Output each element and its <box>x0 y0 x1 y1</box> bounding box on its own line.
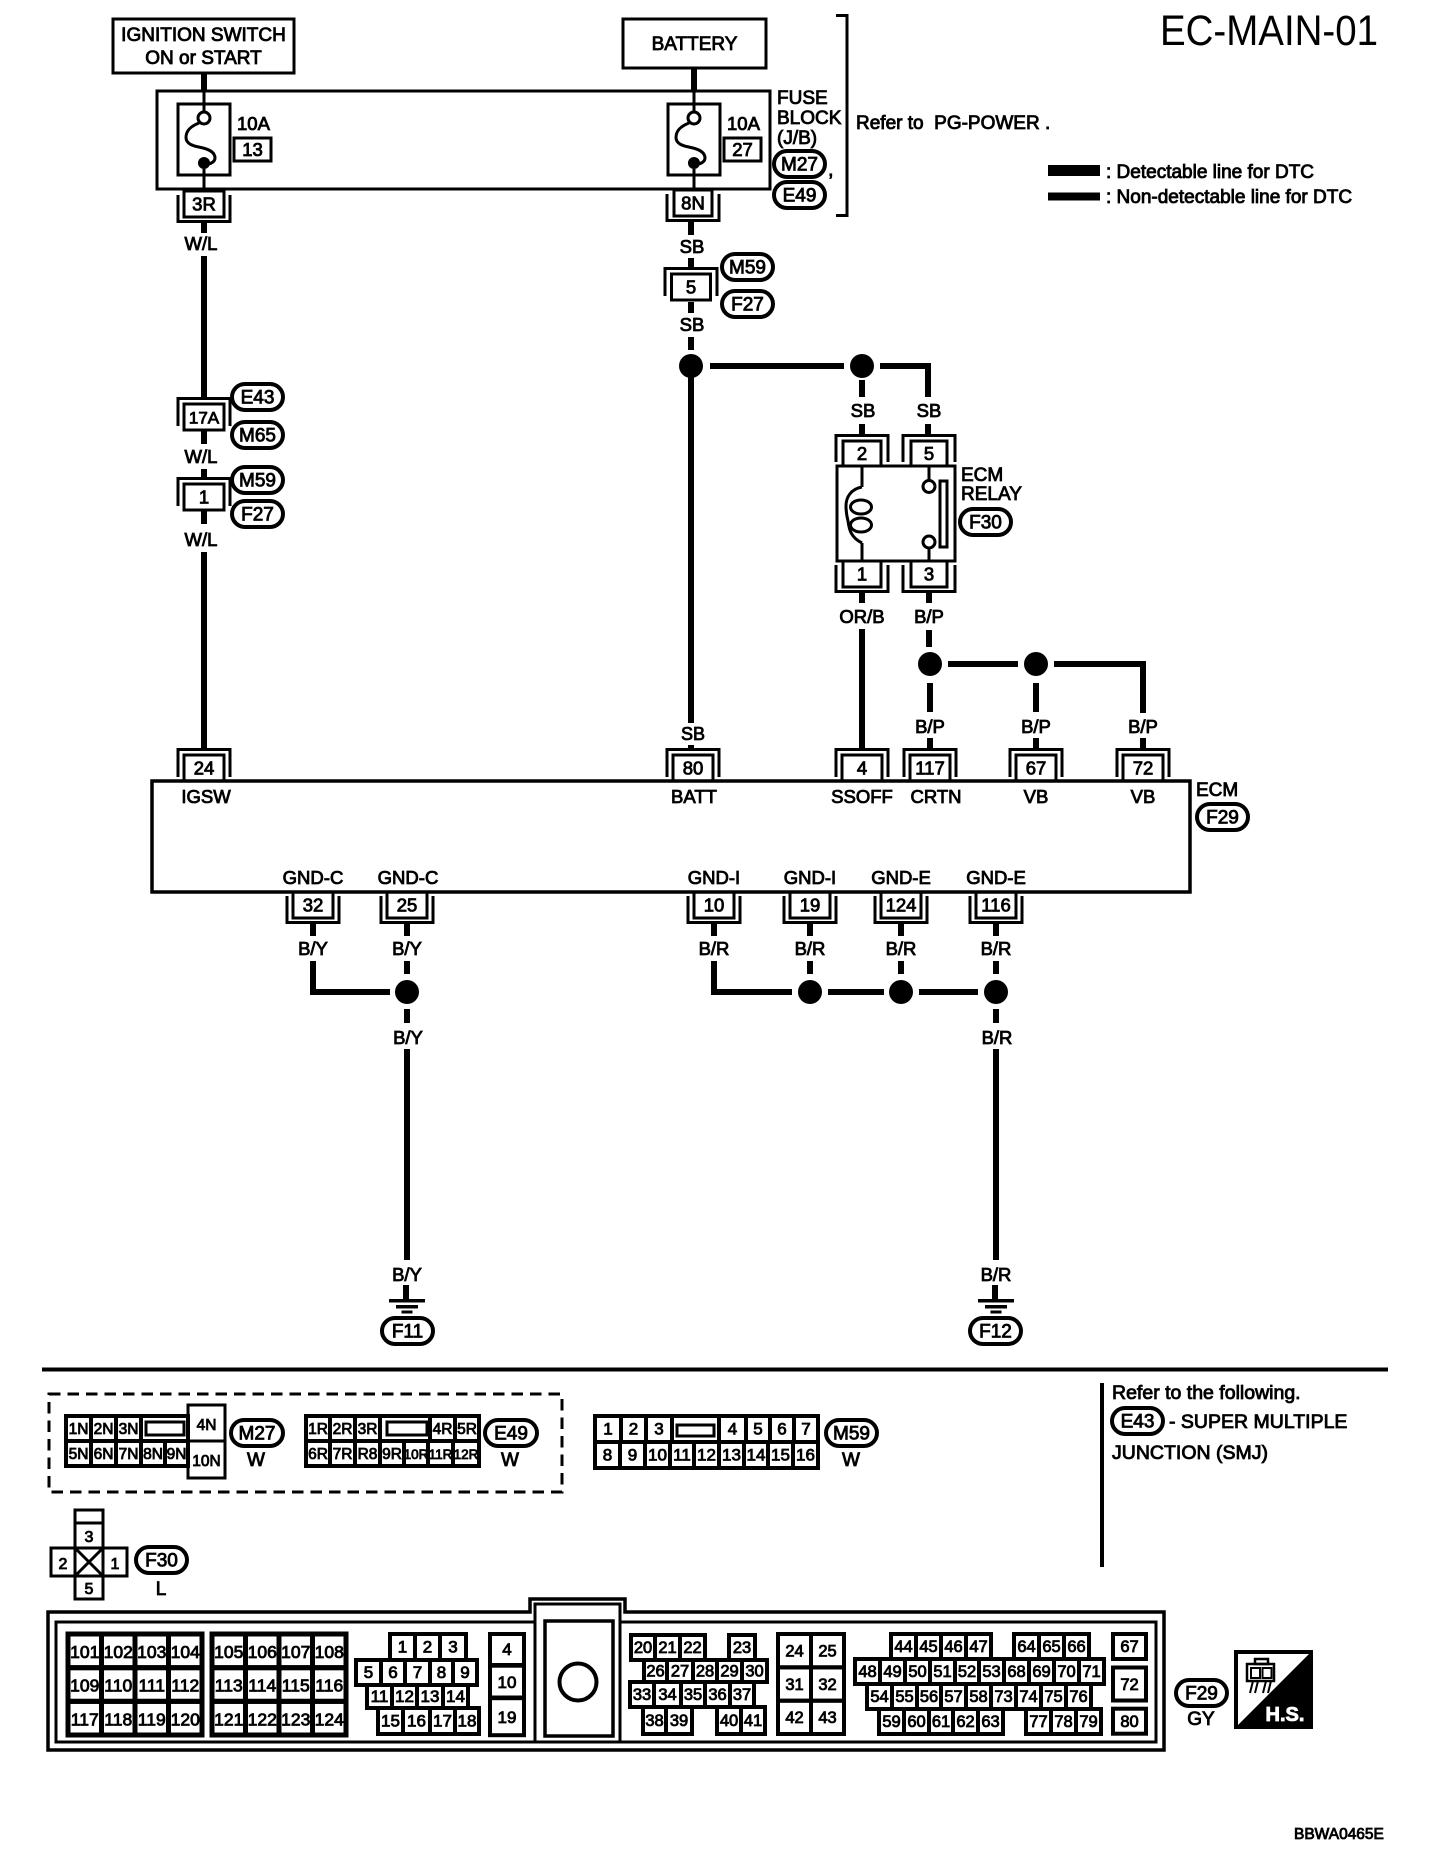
svg-text:3R: 3R <box>192 194 216 215</box>
svg-text:F12: F12 <box>979 1322 1012 1343</box>
bracket for fuse block refs <box>836 14 847 217</box>
svg-text:34: 34 <box>658 1686 676 1704</box>
svg-text:3N: 3N <box>119 1421 139 1438</box>
svg-text:M59: M59 <box>833 1424 870 1445</box>
relay label ECM RELAY <box>961 465 1022 505</box>
fuse 13 number box <box>234 138 271 161</box>
svg-text:B/R: B/R <box>699 938 730 959</box>
svg-text:5N: 5N <box>69 1446 89 1463</box>
ECM connector view outer border <box>48 1599 1164 1750</box>
wire dash 25 to junction E <box>404 961 410 974</box>
ECM pin 116 <box>970 892 1022 923</box>
fuse 10A no.27 <box>668 92 720 191</box>
svg-text:15: 15 <box>771 1446 790 1465</box>
svg-text:3: 3 <box>448 1638 457 1657</box>
connector ref E49 oval <box>774 182 825 208</box>
svg-text:5R: 5R <box>457 1421 477 1438</box>
svg-text:GY: GY <box>1187 1709 1215 1730</box>
relay pin 2 connector box <box>836 436 888 467</box>
svg-text:3: 3 <box>924 564 934 585</box>
ignition switch box <box>113 19 294 73</box>
ground symbol F12 <box>978 1299 1014 1314</box>
svg-text:EC-MAIN-01: EC-MAIN-01 <box>1160 7 1378 55</box>
svg-text:110: 110 <box>104 1676 132 1696</box>
svg-text:106: 106 <box>248 1642 277 1662</box>
svg-text:117: 117 <box>71 1709 99 1729</box>
svg-text:E49: E49 <box>494 1424 528 1445</box>
svg-text:102: 102 <box>104 1642 133 1662</box>
connector 17A <box>178 399 230 431</box>
svg-text:111: 111 <box>138 1676 165 1696</box>
wire battery to fuse block <box>691 68 697 92</box>
svg-text:1: 1 <box>857 564 867 585</box>
svg-text:W: W <box>842 1450 860 1471</box>
svg-text:W/L: W/L <box>185 446 218 467</box>
svg-text:12R: 12R <box>454 1447 479 1462</box>
svg-text:IGSW: IGSW <box>181 786 231 807</box>
svg-text:3: 3 <box>85 1529 94 1546</box>
svg-text:68: 68 <box>1007 1663 1025 1681</box>
wire dash to pin 117 <box>927 738 933 751</box>
svg-text:SSOFF: SSOFF <box>831 786 893 807</box>
svg-text:H.S.: H.S. <box>1266 1704 1305 1726</box>
svg-text:W/L: W/L <box>185 529 218 550</box>
wire dash to relay pin 2 <box>859 424 865 434</box>
svg-text:103: 103 <box>137 1642 166 1662</box>
svg-text:37: 37 <box>733 1686 751 1704</box>
svg-text:- SUPER MULTIPLE: - SUPER MULTIPLE <box>1169 1411 1347 1433</box>
svg-text:M27: M27 <box>781 155 818 176</box>
svg-text:124: 124 <box>315 1709 344 1729</box>
wire 17A stub down <box>201 431 207 444</box>
dashed group box M27 E49 <box>49 1394 562 1492</box>
ECM pin 4 <box>836 750 888 782</box>
connector ref F30 oval footer <box>136 1547 187 1573</box>
svg-text:116: 116 <box>981 895 1011 916</box>
svg-text:25: 25 <box>818 1643 836 1661</box>
svg-text:2: 2 <box>59 1556 68 1573</box>
svg-text:43: 43 <box>818 1709 836 1727</box>
wire dash 124 to bus <box>898 961 904 974</box>
svg-text:FUSE: FUSE <box>777 88 828 109</box>
ECM pin 25 <box>381 892 433 923</box>
svg-text:ON or START: ON or START <box>145 48 262 69</box>
junction dot C <box>918 652 942 676</box>
svg-text:13: 13 <box>242 139 263 160</box>
connector ref F29 oval <box>1197 804 1248 830</box>
svg-text:9N: 9N <box>167 1446 187 1463</box>
svg-text:71: 71 <box>1082 1663 1100 1681</box>
svg-text:SB: SB <box>680 236 705 257</box>
wire dash 116 to bus <box>993 961 999 974</box>
svg-text:118: 118 <box>104 1709 132 1729</box>
wire corner to relay pin 5 <box>880 366 928 397</box>
wire bus segment F-G <box>828 989 884 995</box>
wire 32 corner to junction E <box>313 961 390 992</box>
ECM pin 80 <box>667 750 719 782</box>
svg-text:10: 10 <box>648 1446 667 1465</box>
relay coil <box>846 466 872 561</box>
svg-text:117: 117 <box>915 758 945 779</box>
svg-text:B/Y: B/Y <box>393 1027 423 1048</box>
svg-text:B/Y: B/Y <box>298 938 328 959</box>
svg-text:4N: 4N <box>197 1417 217 1434</box>
svg-text:10A: 10A <box>237 113 271 134</box>
wire stub pin 19 <box>807 923 813 937</box>
svg-text:51: 51 <box>933 1663 951 1681</box>
svg-text:10: 10 <box>704 895 725 916</box>
svg-text:69: 69 <box>1032 1663 1050 1681</box>
svg-text:B/P: B/P <box>914 606 944 627</box>
svg-text:17: 17 <box>433 1712 452 1731</box>
svg-text:11: 11 <box>673 1446 691 1465</box>
svg-text:101: 101 <box>70 1642 99 1662</box>
ECM connector cells 101-124 group A <box>68 1634 202 1735</box>
svg-text:113: 113 <box>215 1676 243 1696</box>
svg-text:7: 7 <box>801 1420 810 1439</box>
fuse block label FUSE BLOCK (J/B) <box>777 88 842 149</box>
wire dash 19 to bus <box>807 961 813 974</box>
svg-text:F30: F30 <box>145 1551 178 1572</box>
wire relay pin1 stub <box>859 592 865 603</box>
refer-to divider vertical line <box>1100 1383 1104 1567</box>
svg-text:4R: 4R <box>433 1421 453 1438</box>
svg-text:78: 78 <box>1054 1713 1072 1731</box>
wire dash junction C down <box>927 683 933 712</box>
svg-text:1: 1 <box>111 1556 120 1573</box>
svg-text:21: 21 <box>658 1639 676 1657</box>
svg-text:3: 3 <box>654 1420 663 1439</box>
svg-text:ECM: ECM <box>961 465 1003 486</box>
svg-text:39: 39 <box>670 1712 688 1730</box>
svg-text:14: 14 <box>747 1446 766 1465</box>
svg-text:SB: SB <box>917 400 942 421</box>
svg-text:E43: E43 <box>1121 1412 1155 1433</box>
ground ref F11 oval <box>382 1318 433 1344</box>
svg-text:5: 5 <box>686 277 696 298</box>
wire stub pin 25 <box>404 923 410 937</box>
svg-text:SB: SB <box>680 314 705 335</box>
svg-text:F27: F27 <box>241 505 274 526</box>
svg-text:7N: 7N <box>119 1446 139 1463</box>
connector view F30 cross <box>51 1510 127 1599</box>
junction dot A <box>679 354 703 378</box>
svg-text:1: 1 <box>398 1638 407 1657</box>
connector ref M27 oval footer <box>231 1420 283 1446</box>
svg-text:GND-C: GND-C <box>378 867 439 888</box>
svg-text:W/L: W/L <box>185 233 218 254</box>
wire SB dash to connector 5 <box>688 258 694 267</box>
ECM pin 10 <box>688 892 740 923</box>
svg-text:JUNCTION (SMJ): JUNCTION (SMJ) <box>1112 1442 1268 1464</box>
svg-text:13: 13 <box>421 1687 440 1706</box>
wire dash to relay pin 5 <box>925 424 931 434</box>
svg-text:116: 116 <box>315 1676 343 1696</box>
connector ref F27 oval <box>232 501 283 527</box>
H.S. hand symbol box <box>1236 1652 1311 1727</box>
svg-text:: Non-detectable line for DTC: : Non-detectable line for DTC <box>1106 187 1352 208</box>
svg-text:M59: M59 <box>729 258 766 279</box>
svg-text:6N: 6N <box>94 1446 114 1463</box>
svg-text:F29: F29 <box>1185 1684 1218 1705</box>
svg-text:49: 49 <box>883 1663 901 1681</box>
svg-text:25: 25 <box>397 895 418 916</box>
svg-text:55: 55 <box>895 1688 913 1706</box>
svg-text:M59: M59 <box>239 471 276 492</box>
svg-text:6: 6 <box>388 1663 397 1682</box>
ECM pin 24 <box>178 750 230 782</box>
svg-text:22: 22 <box>683 1639 701 1657</box>
svg-text:72: 72 <box>1120 1676 1138 1694</box>
svg-text:2: 2 <box>629 1420 638 1439</box>
legend detectable line bar <box>1048 165 1100 176</box>
connector view E49 grid <box>306 1416 479 1466</box>
svg-text:R8: R8 <box>358 1446 378 1463</box>
svg-text:1R: 1R <box>308 1421 328 1438</box>
svg-text:1N: 1N <box>69 1421 89 1438</box>
svg-text:109: 109 <box>70 1676 99 1696</box>
relay contact <box>923 466 947 561</box>
svg-text:54: 54 <box>870 1688 888 1706</box>
svg-text:16: 16 <box>407 1712 426 1731</box>
svg-text:63: 63 <box>981 1713 999 1731</box>
svg-text:2N: 2N <box>94 1421 114 1438</box>
svg-text:80: 80 <box>1120 1713 1138 1731</box>
svg-text:B/Y: B/Y <box>392 938 422 959</box>
wire dash below junction H <box>993 1009 999 1023</box>
wire W/L to connector 1 <box>201 469 207 480</box>
battery box <box>623 19 766 68</box>
relay pin 5 connector box <box>903 436 955 467</box>
svg-text:120: 120 <box>171 1709 200 1729</box>
ECM connector cells 67 72 80 column <box>1113 1634 1146 1734</box>
fuse 27 number box <box>724 138 761 161</box>
svg-text:26: 26 <box>646 1663 664 1681</box>
svg-text:73: 73 <box>994 1688 1012 1706</box>
svg-text:17A: 17A <box>189 409 220 428</box>
svg-text:124: 124 <box>886 895 917 916</box>
svg-text:114: 114 <box>248 1676 276 1696</box>
svg-text:121: 121 <box>214 1709 243 1729</box>
svg-text:10A: 10A <box>727 113 761 134</box>
svg-text:77: 77 <box>1029 1713 1047 1731</box>
junction dot F <box>798 980 822 1004</box>
connector 3R <box>178 191 230 222</box>
connector ref E43 oval footer <box>1112 1408 1163 1434</box>
svg-text:115: 115 <box>282 1676 310 1696</box>
svg-text:67: 67 <box>1120 1638 1138 1656</box>
wire B/Y long down to ground F11 <box>404 1049 410 1260</box>
svg-text:60: 60 <box>907 1713 925 1731</box>
svg-text:27: 27 <box>671 1663 689 1681</box>
relay pin 3 connector box <box>903 561 955 592</box>
svg-text:64: 64 <box>1017 1638 1035 1656</box>
svg-text:E49: E49 <box>783 186 817 207</box>
ECM connector view center tower <box>535 1604 620 1742</box>
svg-text:F30: F30 <box>969 513 1002 534</box>
ECM relay body <box>837 466 955 561</box>
svg-text:38: 38 <box>645 1712 663 1730</box>
svg-text:40: 40 <box>720 1712 738 1730</box>
svg-text:BLOCK: BLOCK <box>777 108 842 129</box>
wire dash B/P to junction C <box>926 630 932 647</box>
connector ref M65 oval <box>232 422 283 448</box>
svg-text:E43: E43 <box>241 388 275 409</box>
svg-text:27: 27 <box>732 139 753 160</box>
ECM connector cells 105-124 group B <box>212 1634 346 1735</box>
svg-text:4: 4 <box>728 1420 737 1439</box>
wire stub above ground F11 <box>403 1285 409 1299</box>
wire 3R stub <box>201 223 207 234</box>
svg-text:SB: SB <box>681 724 705 744</box>
svg-text:61: 61 <box>932 1713 950 1731</box>
wire W/L long down to ECM pin 24 <box>201 552 207 750</box>
svg-text:35: 35 <box>684 1686 702 1704</box>
svg-text:GND-E: GND-E <box>966 867 1026 888</box>
svg-text:VB: VB <box>1131 786 1156 807</box>
svg-text:9: 9 <box>460 1663 469 1682</box>
connector view M59 grid <box>595 1416 818 1468</box>
svg-text:12: 12 <box>395 1687 414 1706</box>
svg-text:42: 42 <box>785 1709 803 1727</box>
H.S. connector icon <box>1247 1659 1274 1693</box>
svg-text:RELAY: RELAY <box>961 484 1022 505</box>
svg-text:B/Y: B/Y <box>392 1264 422 1285</box>
svg-text:(J/B): (J/B) <box>777 128 817 149</box>
wire dash junction B down <box>859 380 865 397</box>
ECM pin 72 <box>1117 750 1169 782</box>
svg-text:53: 53 <box>982 1663 1000 1681</box>
svg-text:B/R: B/R <box>981 938 1012 959</box>
connector ref F29 oval footer <box>1176 1680 1227 1706</box>
wire stub above ground F12 <box>992 1285 998 1299</box>
junction dot H <box>984 980 1008 1004</box>
svg-text:9: 9 <box>628 1446 637 1465</box>
connector ref F30 oval <box>960 509 1011 535</box>
wire junction D down <box>1033 683 1039 712</box>
connector ref M59 oval 2 <box>722 254 773 280</box>
connector ref E49 oval footer <box>485 1420 537 1446</box>
svg-text:15: 15 <box>381 1712 400 1731</box>
svg-text:10R: 10R <box>404 1447 429 1462</box>
svg-text:M27: M27 <box>239 1424 276 1445</box>
svg-text:31: 31 <box>785 1676 803 1694</box>
wire W/L down to 17A <box>201 256 207 397</box>
svg-text:8N: 8N <box>681 193 705 214</box>
svg-text:7R: 7R <box>333 1446 353 1463</box>
svg-text:66: 66 <box>1067 1638 1085 1656</box>
junction dot B <box>850 354 874 378</box>
wire relay pin3 stub <box>926 592 932 603</box>
connector 5 (battery branch) <box>665 269 717 301</box>
svg-text:L: L <box>156 1579 167 1600</box>
ECM connector cells 24 25 31 32 42 43 grid <box>778 1634 844 1734</box>
svg-text:57: 57 <box>944 1688 962 1706</box>
ECM connector cells 4 10 19 column <box>490 1634 524 1735</box>
svg-text:108: 108 <box>315 1642 344 1662</box>
svg-text:VB: VB <box>1024 786 1049 807</box>
svg-text:23: 23 <box>733 1639 751 1657</box>
svg-text:9R: 9R <box>382 1446 402 1463</box>
svg-text:BATTERY: BATTERY <box>652 34 738 55</box>
wire dash below connector 5 <box>688 302 694 313</box>
svg-text:104: 104 <box>171 1642 200 1662</box>
svg-text:5: 5 <box>924 443 934 464</box>
svg-text:119: 119 <box>138 1709 166 1729</box>
ECM connector cells 44-79 staircase <box>855 1634 1104 1734</box>
svg-text:B/P: B/P <box>1128 716 1158 737</box>
svg-text:GND-I: GND-I <box>784 867 836 888</box>
wire B/R long down to ground F12 <box>993 1049 999 1260</box>
svg-text:62: 62 <box>956 1713 974 1731</box>
wire stub pin 124 <box>898 923 904 937</box>
svg-text:47: 47 <box>969 1638 987 1656</box>
svg-text:41: 41 <box>744 1712 762 1730</box>
svg-text:,: , <box>828 159 834 181</box>
svg-text:BBWA0465E: BBWA0465E <box>1294 1826 1384 1843</box>
svg-text:50: 50 <box>908 1663 926 1681</box>
svg-text:OR/B: OR/B <box>839 606 884 627</box>
svg-text:33: 33 <box>633 1686 651 1704</box>
svg-text:11R: 11R <box>429 1447 453 1462</box>
svg-text:16: 16 <box>796 1446 815 1465</box>
svg-text:11: 11 <box>371 1687 389 1706</box>
svg-text:32: 32 <box>303 895 324 916</box>
svg-text:F11: F11 <box>392 1322 423 1343</box>
svg-text:24: 24 <box>194 758 215 779</box>
connector 1 <box>178 479 230 511</box>
wire 8N dash <box>688 222 694 236</box>
svg-text:SB: SB <box>851 400 876 421</box>
svg-text:70: 70 <box>1057 1663 1075 1681</box>
svg-text:Refer to the following.: Refer to the following. <box>1112 1382 1301 1404</box>
svg-text:F29: F29 <box>1206 808 1239 829</box>
ECM body box <box>152 781 1190 892</box>
svg-text:4: 4 <box>857 758 867 779</box>
ECM pin 67 <box>1010 750 1062 782</box>
wire stub to pin 72 <box>1140 738 1146 751</box>
svg-text:20: 20 <box>634 1639 652 1657</box>
wire junction A to junction B horizontal <box>710 363 844 369</box>
svg-text:: Detectable line for DTC: : Detectable line for DTC <box>1106 162 1314 183</box>
svg-text:W: W <box>247 1450 265 1471</box>
svg-text:123: 123 <box>281 1709 310 1729</box>
ECM pin 124 <box>875 892 927 923</box>
junction dot D <box>1024 652 1048 676</box>
ECM pin 117 <box>904 750 956 782</box>
svg-text:107: 107 <box>281 1642 310 1662</box>
svg-text:5: 5 <box>85 1581 94 1598</box>
svg-text:30: 30 <box>745 1663 763 1681</box>
svg-text:59: 59 <box>882 1713 900 1731</box>
wire stub pin 116 <box>993 923 999 937</box>
svg-text:58: 58 <box>969 1688 987 1706</box>
svg-text:8: 8 <box>603 1446 612 1465</box>
svg-text:75: 75 <box>1044 1688 1062 1706</box>
svg-text:28: 28 <box>696 1663 714 1681</box>
svg-text:3R: 3R <box>358 1421 378 1438</box>
wire 10 corner to ground bus <box>714 961 792 992</box>
svg-text:8N: 8N <box>143 1446 163 1463</box>
fuse block box <box>157 91 770 189</box>
svg-text:GND-I: GND-I <box>688 867 740 888</box>
svg-text:105: 105 <box>214 1642 243 1662</box>
svg-text:B/R: B/R <box>981 1264 1012 1285</box>
svg-text:74: 74 <box>1019 1688 1037 1706</box>
wire bus segment G-H <box>919 989 978 995</box>
svg-text:B/P: B/P <box>1021 716 1051 737</box>
svg-text:6: 6 <box>777 1420 786 1439</box>
